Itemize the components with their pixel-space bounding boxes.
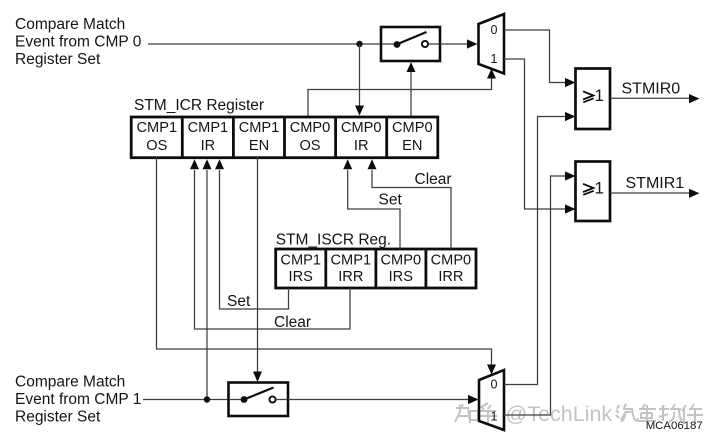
svg-text:CMP0: CMP0 [290,120,331,136]
watermark: 知乎@TechLink汽车软件 [455,402,703,426]
bit field CMP0 EN [392,120,433,154]
wire: CMP0 clear path IRR to IR [368,159,452,249]
text: Compare Match Event from CMP 1 label [15,374,141,426]
svg-text:Compare Match: Compare Match [15,374,125,391]
wire: switch S0 output to demux input [440,39,478,48]
bit field CMP0 IRR [431,253,472,285]
svg-text:CMP0: CMP0 [381,253,422,269]
wire: demux0 output 0 to OR gate U1 [504,30,576,87]
wire: STMIR0 output [610,94,700,103]
svg-text:EN: EN [249,138,269,154]
wire: CMP1 event up to CMP1 IR set input [203,159,212,399]
label: &gt;=1 in U1 [583,86,604,105]
svg-text:CMP1: CMP1 [280,253,321,269]
svg-text:STM_ISCR Reg.: STM_ISCR Reg. [276,232,391,249]
svg-text:Event from CMP 1: Event from CMP 1 [15,391,141,408]
wire: CMP0 OS select line to demux0 [308,69,496,119]
bit field CMP1 EN [239,120,280,154]
or-gate U1 (STMIR0) [576,69,611,130]
or-gate U2 (STMIR1) [576,162,611,222]
wire: CMP0 event line to switch [148,43,381,45]
svg-text:STMIR1: STMIR1 [626,175,685,192]
switch S0: CMP0 interrupt enable gate [381,27,440,61]
node: CMP0 event junction [356,41,362,47]
svg-text:IRS: IRS [389,269,414,285]
svg-text:1: 1 [491,409,498,423]
wire: switch S1 output to demux1 input [288,395,479,404]
svg-text:Compare Match: Compare Match [15,16,125,33]
switch S1: CMP1 interrupt enable gate [229,383,289,417]
svg-text:Clear: Clear [274,314,311,331]
wire: CMP1 EN enable down to switch S1 [253,157,262,382]
svg-text:@TechLink: @TechLink [506,402,613,426]
bit field CMP1 IRS [280,253,321,285]
mux: CMP0 output-select demux [479,14,505,74]
wire: CMP0 EN enable to switch S0 [407,62,416,118]
wire: CMP1 OS select line to demux1 [157,157,497,375]
svg-text:MCA06187: MCA06187 [646,420,703,432]
wire: STMIR1 output [610,189,700,198]
svg-text:CMP1: CMP1 [331,253,372,269]
svg-text:Set: Set [379,191,403,208]
register STM_ISCR [276,249,476,288]
wire: CMP1 event line to switch [143,399,229,401]
bit field CMP1 IRR [331,253,372,285]
svg-text:0: 0 [491,23,498,37]
svg-text:Event from CMP 0: Event from CMP 0 [15,34,142,51]
bit field CMP0 OS [290,120,331,154]
svg-text:CMP0: CMP0 [392,120,433,136]
svg-text:OS: OS [146,138,167,154]
svg-text:1: 1 [595,86,604,105]
svg-text:IR: IR [354,138,369,154]
svg-text:IRR: IRR [338,269,363,285]
svg-text:CMP1: CMP1 [239,120,280,136]
svg-text:CMP1: CMP1 [188,120,229,136]
svg-text:STM_ICR Register: STM_ICR Register [134,97,264,114]
svg-text:Clear: Clear [415,171,452,188]
bit field CMP0 IRS [381,253,422,285]
svg-text:CMP0: CMP0 [341,120,382,136]
text: Compare Match Event from CMP 0 label [15,16,142,68]
svg-text:1: 1 [595,178,604,197]
bit field CMP1 OS [137,120,178,154]
wire: demux1 output 0 to OR gate U1 [504,112,576,385]
svg-text:Register Set: Register Set [15,51,101,68]
wire: demux0 output 1 to OR gate U2 [504,59,576,214]
wire: demux1 output 1 to OR gate U2 [504,171,576,415]
bit field CMP0 IR [341,120,382,154]
svg-text:CMP0: CMP0 [431,253,472,269]
svg-text:OS: OS [299,138,320,154]
svg-text:Register Set: Register Set [15,409,101,426]
svg-text:IR: IR [201,138,216,154]
wire: CMP0 set path IRS to IR [343,159,400,249]
wire: CMP1 set path IRS to IR [215,159,289,309]
register STM_ICR [131,117,438,158]
mux: CMP1 output-select demux [479,370,504,430]
svg-text:0: 0 [491,377,498,391]
svg-text:Set: Set [227,293,251,310]
node: CMP1 event junction [204,396,210,402]
label: &gt;=1 in U2 [583,178,604,197]
svg-text:IRR: IRR [438,269,463,285]
svg-text:EN: EN [402,138,422,154]
svg-text:IRS: IRS [289,269,314,285]
svg-text:1: 1 [491,52,498,66]
bit field CMP1 IR [188,120,229,154]
svg-text:CMP1: CMP1 [137,120,178,136]
wire: CMP1 clear path IRR to IR [190,159,350,329]
svg-text:STMIR0: STMIR0 [622,80,681,97]
wire: CMP0 event down to CMP0 IR set input [355,44,364,116]
